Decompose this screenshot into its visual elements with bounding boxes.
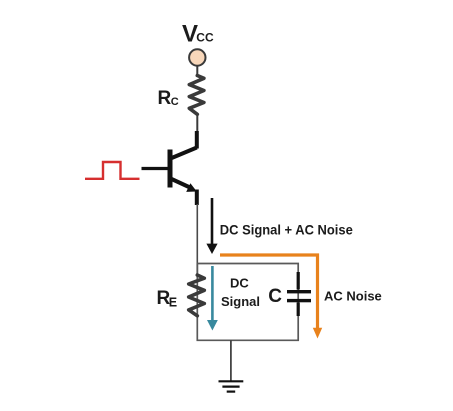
svg-text:Signal: Signal [221, 294, 260, 309]
svg-text:DC: DC [230, 276, 249, 291]
svg-text:CC: CC [196, 31, 214, 45]
svg-text:DC Signal + AC Noise: DC Signal + AC Noise [220, 221, 353, 237]
svg-text:AC Noise: AC Noise [324, 289, 382, 304]
svg-text:R: R [158, 88, 172, 109]
svg-text:C: C [268, 286, 282, 307]
svg-text:E: E [169, 296, 177, 310]
svg-text:C: C [171, 96, 179, 108]
